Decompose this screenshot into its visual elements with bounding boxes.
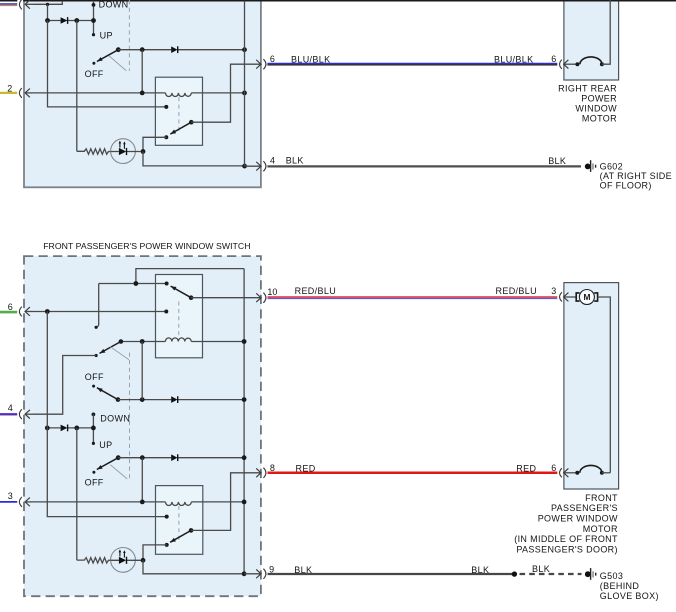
pin 10 connector (right) [263, 293, 266, 303]
node: pin 4 junction [242, 164, 247, 169]
node: relay K1 upper contact [164, 105, 168, 109]
svg-text:6: 6 [551, 54, 556, 64]
wire BLK pin9 to splice [268, 573, 515, 575]
motor M1 box [564, 0, 619, 80]
wire RED/BLU pin10 to motor [268, 296, 558, 298]
svg-text:OFF: OFF [85, 372, 104, 382]
relay K1 coil [166, 93, 192, 97]
node: pin1 tee [46, 3, 49, 6]
wire: lower contact to LED node [143, 545, 167, 560]
relay K3 arm [189, 528, 194, 533]
switch box body [24, 0, 261, 187]
svg-text:BLU/BLK: BLU/BLK [291, 54, 330, 64]
LED DL1 [111, 139, 136, 164]
pin 2 arrow [25, 92, 33, 94]
relay K3 coil [166, 502, 192, 506]
node: relay K3 upper contact [165, 515, 169, 519]
mechanical link S2 [110, 346, 129, 359]
wire: DOWN/UP diode row [48, 20, 94, 22]
node: S2 down contact [95, 354, 98, 357]
motor M1 brush jumper [575, 62, 579, 66]
wire: DOWN contact stem [93, 1, 95, 35]
svg-text:GLOVE BOX): GLOVE BOX) [600, 591, 659, 601]
wire: pin 2 to relay coil [33, 92, 166, 94]
connector bracket pin 2 [19, 88, 22, 98]
wire BLK dashed splice to G503 [520, 573, 582, 575]
node: row right [91, 426, 96, 431]
diode D3 [171, 396, 177, 403]
switch S1 OFF arm (top box) [116, 47, 121, 52]
connector bracket motor pin 6 [560, 468, 562, 477]
node: UP contact [92, 442, 95, 445]
wire: x=142 vertical S4 row to pin3 row [141, 458, 143, 502]
svg-text:BLU/BLK: BLU/BLK [494, 54, 533, 64]
wire: relay arm to pin 6 [191, 64, 261, 122]
relay K3 dashed actuator [178, 506, 180, 542]
svg-text:6: 6 [8, 302, 13, 312]
wire: coil to main vertical [191, 341, 244, 343]
wire BLU stub at pin 1 (cut) [0, 3, 17, 5]
svg-text:3: 3 [8, 491, 13, 501]
pin 9 arrow [244, 573, 261, 575]
relay K2 box [156, 275, 203, 358]
mechanical dashed link line [128, 0, 130, 71]
node: OFF row at x=244.5 [242, 47, 247, 52]
resistor R2 [77, 558, 111, 563]
wire: vertical from row to resistor [76, 21, 78, 152]
svg-text:(IN MIDDLE OF FRONT: (IN MIDDLE OF FRONT [514, 534, 618, 544]
wire: left contact feed (from diode row vertical) [48, 21, 167, 107]
pin 4 arrow [25, 413, 33, 415]
wire YEL stub at pin 2 [0, 92, 17, 94]
svg-text:G503: G503 [600, 571, 623, 581]
mechanical dashed link line (bottom box) [129, 353, 131, 482]
svg-text:BLK: BLK [471, 565, 489, 575]
svg-text:3: 3 [551, 286, 556, 296]
node: relay K2 upper contact [165, 282, 169, 286]
svg-text:(BEHIND: (BEHIND [600, 581, 640, 591]
svg-text:G602: G602 [600, 162, 623, 172]
wire: pin 3 to relay K3 coil [33, 501, 166, 503]
svg-text:RED: RED [516, 463, 536, 473]
svg-text:MOTOR: MOTOR [583, 524, 618, 534]
svg-text:6: 6 [551, 463, 556, 473]
switch S4 OFF arm [116, 455, 121, 460]
svg-text:OFF: OFF [85, 69, 104, 79]
diode D1 on DOWN/UP row [61, 17, 68, 24]
wire: top bus over motor box [563, 0, 619, 2]
wire: relay arm to pin 8 [191, 473, 261, 531]
switch S3 manual arm [116, 397, 121, 402]
wire BLK pin4 to G602 [267, 165, 581, 167]
relay K3 box [156, 486, 203, 555]
wire: mid vertical to resistor R2 [76, 428, 78, 560]
node: S4 row x=142 [140, 455, 145, 460]
wire: coil to main vertical [191, 501, 244, 503]
relay K2 coil [165, 338, 191, 342]
motor pin 3 arrow [564, 296, 576, 298]
node: UP contact [92, 33, 95, 36]
diode D4 [61, 425, 68, 432]
motor M2 box [564, 283, 619, 489]
node: splice [512, 571, 517, 576]
mechanical link [109, 56, 126, 71]
svg-text:BLK: BLK [286, 155, 304, 165]
wire: arm to pin 10 [191, 297, 261, 299]
connector bracket pin 4 [19, 409, 22, 419]
node: row junction right [91, 18, 96, 23]
node: LED output [141, 149, 146, 154]
pin 3 arrow [25, 501, 33, 503]
wire GRN stub at pin 6 [0, 311, 17, 314]
pin 8 connector (right) [263, 468, 266, 478]
wire: main vertical x=244.5 [244, 1, 246, 166]
node: loop tee [134, 281, 139, 286]
node: coil right [242, 500, 247, 505]
wire: DOWN/UP diode row [47, 427, 93, 429]
wire: lower contact to LED node [143, 137, 166, 151]
svg-text:DOWN: DOWN [99, 0, 129, 9]
pin 6 arrow [25, 311, 33, 313]
motor M2 symbol [576, 290, 597, 305]
wire: vertical to DOWN/UP diode row [47, 4, 49, 20]
wire BLU/BLK pin6 to motor [267, 63, 557, 65]
motor M2 brush jumper [575, 471, 579, 475]
wire: free contact hook [96, 284, 98, 328]
wire: LED node to pin 9 [143, 560, 244, 574]
node: free contact [95, 326, 98, 329]
connector bracket pin 1 [19, 0, 22, 9]
node: S3 row x=142 [140, 397, 145, 402]
svg-text:PASSENGER'S: PASSENGER'S [551, 503, 618, 513]
svg-text:POWER WINDOW: POWER WINDOW [538, 514, 618, 524]
relay K1 box (top switch) [155, 77, 202, 145]
node: row mid [74, 426, 79, 431]
svg-text:RED/BLU: RED/BLU [295, 286, 336, 296]
node: DOWN contact [92, 413, 96, 417]
connector bracket pin 6 [19, 307, 22, 317]
svg-text:OFF: OFF [85, 477, 104, 487]
relay K2 dashed actuator [178, 302, 180, 337]
node: row junction mid [74, 18, 79, 23]
node: row junction left [45, 18, 50, 23]
wire: OFF row [118, 49, 244, 51]
svg-text:BLK: BLK [532, 564, 550, 574]
svg-text:2: 2 [7, 83, 12, 93]
node: relay K2 lower contact [164, 310, 168, 314]
svg-text:DOWN: DOWN [100, 413, 130, 423]
wire: pin 6 to relay K2 lower contact [33, 311, 166, 313]
wire: pin 4 to S2 down contact [33, 356, 96, 415]
node: S4 OFF contact [92, 471, 95, 474]
svg-text:6: 6 [270, 54, 275, 64]
node: S3 row right [242, 397, 247, 402]
node: coil right [242, 339, 247, 344]
node: relay K3 lower contact [165, 543, 169, 547]
wire BLU stub at pin 3 [0, 501, 17, 503]
svg-text:10: 10 [267, 287, 277, 297]
LED DL2 [111, 548, 136, 573]
wire: coil to x=244.5 [191, 92, 244, 94]
wire: left vertical pin6 row to relay K3 contact [47, 312, 166, 517]
pin 9 connector (right) [263, 569, 266, 579]
svg-text:UP: UP [99, 440, 112, 450]
connector bracket pin 3 [19, 497, 22, 507]
ground G602 [585, 160, 597, 172]
svg-text:RED/BLU: RED/BLU [496, 286, 537, 296]
node: coil x=142 [140, 339, 145, 344]
pin 4 arrow [245, 165, 261, 167]
node: row left [45, 426, 50, 431]
node: LED output [141, 558, 146, 563]
diode D5 [171, 454, 177, 461]
node: OFF contact [92, 62, 95, 65]
diode D2 on OFF row [171, 46, 177, 53]
svg-text:POWER: POWER [581, 94, 617, 104]
node: DOWN contact [92, 3, 96, 7]
relay K1 dashed actuator [178, 97, 180, 133]
wire: LED node to pin 4 [143, 152, 245, 166]
svg-text:8: 8 [270, 463, 275, 473]
svg-text:M: M [584, 292, 591, 302]
wire: top horizontal bus at y=0.7 [0, 0, 676, 2]
svg-text:MOTOR: MOTOR [582, 114, 617, 124]
node: pin 9 junction [242, 571, 247, 576]
node: pin6 row tee [45, 309, 50, 314]
node: S4 row right [242, 455, 247, 460]
switch S2 auto arm [119, 339, 124, 344]
connector bracket motor pin 3 [560, 292, 562, 301]
wire BLU/RED stub at pin 4 [0, 413, 17, 415]
relay K1 arm [189, 120, 194, 125]
svg-text:RIGHT REAR: RIGHT REAR [558, 83, 617, 93]
node: S3 OFF contact [92, 385, 95, 388]
svg-text:4: 4 [8, 403, 13, 413]
wire: upper contact feed [99, 283, 167, 285]
switch box body (dashed) [24, 256, 261, 596]
wire: main vertical x=244.1 [243, 269, 245, 574]
resistor R1 [77, 149, 111, 154]
relay K2 arm [189, 295, 194, 300]
node: OFF row at x=142 [140, 47, 145, 52]
wire: jumper to internal vertical [602, 0, 610, 64]
ground G503 [585, 568, 597, 580]
connector bracket motor pin 6 [560, 60, 562, 69]
wire: pin1 to step [33, 1, 62, 5]
node: coil row right [242, 91, 247, 96]
svg-text:UP: UP [100, 30, 113, 40]
motor pin 6 arrow [564, 63, 578, 65]
svg-text:OF FLOOR): OF FLOOR) [600, 180, 652, 190]
wire ORN stub under pin 1 [0, 5, 17, 7]
wire RED pin8 to motor [268, 472, 558, 475]
mechanical link S4 [110, 465, 127, 479]
svg-text:BLK: BLK [548, 156, 566, 166]
svg-text:4: 4 [270, 155, 275, 165]
wire: top loop [136, 269, 244, 284]
relay K2 coil row [121, 341, 165, 343]
svg-text:WINDOW: WINDOW [575, 104, 617, 114]
pin 6 connector (right, top box) [263, 59, 266, 69]
node: relay K1 lower contact [164, 135, 168, 139]
node: coil row at x=142 [140, 91, 145, 96]
wire: S3 row with diode [118, 399, 244, 401]
wire: S4 row with diode [118, 457, 244, 459]
node: pin3 row x=142 [140, 500, 145, 505]
svg-text:FRONT: FRONT [585, 493, 618, 503]
svg-text:PASSENGER'S DOOR): PASSENGER'S DOOR) [516, 544, 618, 554]
motor pin 6 arrow [564, 472, 578, 474]
svg-text:BLK: BLK [294, 565, 312, 575]
pin 1 arrow [25, 3, 33, 5]
svg-text:FRONT PASSENGER'S POWER WINDOW: FRONT PASSENGER'S POWER WINDOW SWITCH [43, 241, 250, 251]
wire: motor to internal vertical [598, 297, 611, 473]
wire: x=142 vertical to coil row [141, 50, 143, 93]
svg-text:RED: RED [296, 464, 316, 474]
wire: x=142 vertical coil to S3 row [141, 342, 143, 400]
wire: DOWN/UP stem [92, 414, 94, 443]
pin 4 connector (right, top box) [263, 161, 266, 171]
